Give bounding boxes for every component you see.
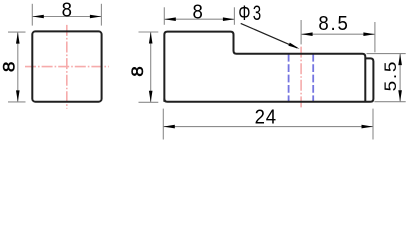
- svg-text:8.5: 8.5: [318, 14, 349, 36]
- extension line bottom (height dim 8, right view): [139, 101, 159, 103]
- extension line top (height dim 8, right view): [139, 31, 159, 33]
- svg-text:5.5: 5.5: [381, 60, 400, 91]
- dimension line (height dim 8, right view): [150, 32, 152, 102]
- svg-text:Φ3: Φ3: [238, 1, 263, 25]
- dimension line (top dim 8, right view): [164, 18, 234, 20]
- leader line (PHI3): [241, 23, 298, 48]
- extension line left (dim 24): [162, 109, 164, 140]
- extension line top (left dim 8): [8, 31, 26, 33]
- dimension line (left dim 8): [17, 32, 19, 102]
- centerline horizontal (left view): [25, 66, 109, 68]
- extension line left (dim 8.5): [300, 20, 302, 44]
- dimension line (dim 5.5): [399, 54, 401, 102]
- centerline vertical (left view): [66, 25, 68, 109]
- extension line right (dim 24): [372, 109, 374, 140]
- dimension line (top dim 8): [32, 16, 101, 18]
- extension line right (top dim 8): [100, 4, 102, 26]
- arrow right (top dim 8): [90, 15, 102, 19]
- svg-text:8: 8: [128, 66, 147, 77]
- arrow left (top dim 8, right view): [164, 17, 176, 21]
- arrow top (height dim 8, right view): [149, 32, 153, 44]
- svg-text:8: 8: [62, 0, 72, 21]
- arrow right (top dim 8, right view): [223, 17, 235, 21]
- arrow right (dim 24): [362, 125, 374, 129]
- arrow bottom (left dim 8): [16, 90, 20, 102]
- hidden hole edge left (blue dashed): [288, 54, 290, 102]
- square body outline (left view): [32, 31, 101, 101]
- hidden hole edge right (blue dashed): [312, 54, 314, 102]
- arrow left (dim 8.5): [301, 32, 313, 36]
- arrow right (dim 8.5): [363, 32, 375, 36]
- block outline upper (left edge, top edges, step, interior right edge): [164, 32, 365, 102]
- dimension line (dim 24): [163, 126, 373, 128]
- leader arrow (PHI3): [288, 43, 299, 49]
- svg-text:8: 8: [192, 2, 202, 24]
- svg-text:24: 24: [255, 107, 277, 129]
- extension line bottom (dim 5.5): [374, 101, 405, 103]
- dimension line (dim 8.5): [301, 33, 375, 35]
- extension line left (top dim 8): [31, 4, 33, 26]
- extension line right (top dim 8, right view): [233, 7, 235, 25]
- extension line right (dim 8.5): [374, 22, 376, 52]
- arrow bottom (height dim 8, right view): [149, 91, 153, 103]
- arrow bottom (dim 5.5): [398, 90, 402, 102]
- extension line left (top dim 8, right view): [163, 7, 165, 25]
- extension line top (dim 5.5): [367, 53, 406, 55]
- arrow top (dim 5.5): [398, 54, 402, 66]
- arrow top (left dim 8): [16, 32, 20, 44]
- extension line bottom (left dim 8): [8, 101, 26, 103]
- svg-text:8: 8: [0, 62, 18, 73]
- hole centerline (red, right view): [300, 47, 302, 109]
- arrow left (top dim 8): [32, 15, 44, 19]
- arrow left (dim 24): [163, 125, 175, 129]
- block outline lower (right tab, right edge, bottom edge): [164, 58, 373, 101]
